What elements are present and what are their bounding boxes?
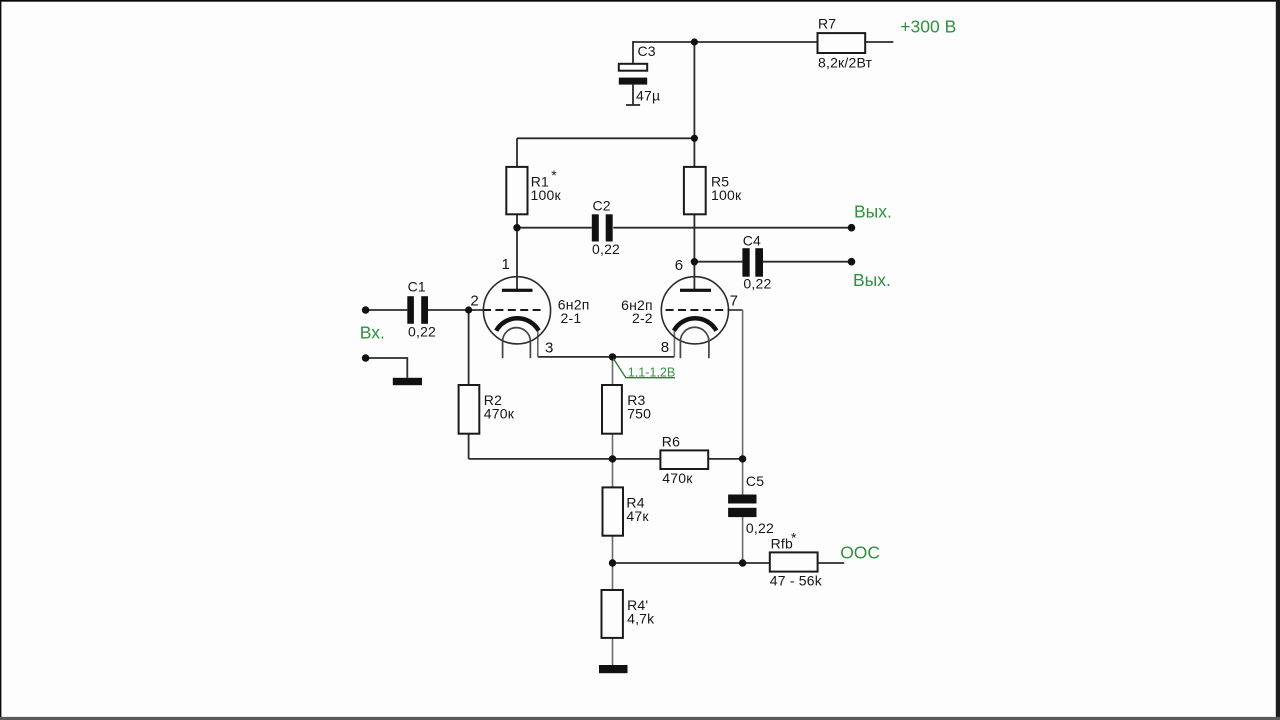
svg-text:0,22: 0,22 [592,241,620,257]
wire rail R1-R5 [517,137,694,139]
capacitor C1 [407,296,414,324]
wire R4' bottom lead [612,638,614,666]
wire C2 left [517,227,592,229]
frame borders [0,0,1280,2]
wire R4 top lead [612,459,614,488]
svg-text:R6: R6 [662,434,680,450]
svg-text:470к: 470к [662,470,693,486]
wire C4 left [694,261,742,263]
capacitor C2 [592,214,599,241]
svg-text:2-2: 2-2 [632,310,653,326]
terminal input ground [362,354,370,362]
svg-text:2: 2 [470,292,478,309]
wire pin7 horizontal [728,309,742,311]
svg-text:0,22: 0,22 [408,324,436,340]
wire main vertical x=694 top [693,42,695,167]
svg-text:+300 В: +300 В [900,17,956,37]
svg-text:8,2к/2Вт: 8,2к/2Вт [818,55,873,71]
svg-text:Вых.: Вых. [854,201,892,221]
svg-text:*: * [551,167,557,183]
svg-text:7: 7 [730,292,738,309]
annotation 1,1-1,2V [614,359,676,378]
wire R1 bottom lead to tube1 anode [516,214,518,289]
wire C1 to grid node [428,309,484,311]
wire input ground terminal [366,358,408,378]
wire R1 top lead [516,138,518,167]
svg-text:C4: C4 [743,232,761,248]
wire C5 bottom lead [742,517,744,563]
svg-text:0,22: 0,22 [743,276,771,292]
wire R3 bottom lead [612,434,614,459]
capacitor C5 [728,495,756,504]
svg-text:1: 1 [502,256,510,273]
wire grid node down to R2 [468,310,470,385]
svg-text:100к: 100к [711,187,742,203]
wire tube1 cathode lead [537,330,539,357]
resistor Rfb [770,552,818,571]
svg-text:C3: C3 [638,43,656,59]
svg-text:47µ: 47µ [636,88,660,104]
ground (bottom R4') [599,665,628,673]
svg-text:Вх.: Вх. [360,323,385,343]
svg-text:8: 8 [661,339,669,356]
svg-text:3: 3 [545,340,553,357]
resistor R2 [459,385,480,434]
resistor R5 [684,167,706,214]
svg-text:C1: C1 [408,278,426,294]
wire +300V top rail [633,41,893,43]
svg-text:470к: 470к [484,406,515,422]
resistor R1 [506,167,527,214]
terminal output 1 [848,224,856,232]
svg-text:750: 750 [627,406,651,422]
wire R2 bottom lead [468,434,470,459]
svg-text:Вых.: Вых. [853,270,891,290]
wire R5 bottom lead to tube2 anode [693,214,695,289]
svg-text:Rfb: Rfb [771,536,793,552]
svg-text:*: * [791,530,797,546]
resistor R7 [818,33,866,53]
wire input to C1 [366,309,408,311]
ground (input) [393,378,422,385]
terminal output 2 [848,258,856,266]
wire R4 bottom lead [612,536,614,563]
tube U1 6n2p 2-1 [483,277,551,359]
wire cathode bus [538,356,675,358]
svg-text:R7: R7 [818,15,836,31]
svg-text:1,1-1,2В: 1,1-1,2В [628,366,676,380]
svg-text:6: 6 [675,257,683,274]
capacitor C3 [619,64,647,71]
svg-text:100к: 100к [531,187,562,203]
svg-text:47к: 47к [626,508,649,524]
capacitor C4 [742,248,749,277]
wire R6 to pin7 line [708,458,742,460]
svg-text:2-1: 2-1 [561,310,582,326]
resistor R4' [602,590,623,638]
svg-text:C5: C5 [746,473,764,489]
wire bus R2 to R6 [469,458,661,460]
wire C2 right to output [613,227,851,229]
resistor R4 [603,487,624,535]
wire R4' top lead [612,563,614,590]
wire R3 top lead [612,357,614,385]
resistor R6 [660,450,708,469]
wire C3 top bend [632,41,634,64]
wire pin7 vertical to C5 [742,310,744,495]
wire tube2 cathode lead [673,330,675,357]
svg-text:47 - 56k: 47 - 56k [770,573,823,589]
wire Rfb right [818,562,845,564]
svg-text:C2: C2 [593,198,611,214]
svg-text:0,22: 0,22 [746,520,774,536]
resistor R3 [602,385,622,434]
node junction dots [691,38,698,45]
svg-text:ООС: ООС [840,542,880,562]
terminal input [362,306,370,314]
wire feedback bus [613,562,770,564]
tube U2 6n2p 2-2 [661,277,729,359]
wire C4 right to output [763,261,852,263]
svg-text:4,7k: 4,7k [627,611,655,627]
